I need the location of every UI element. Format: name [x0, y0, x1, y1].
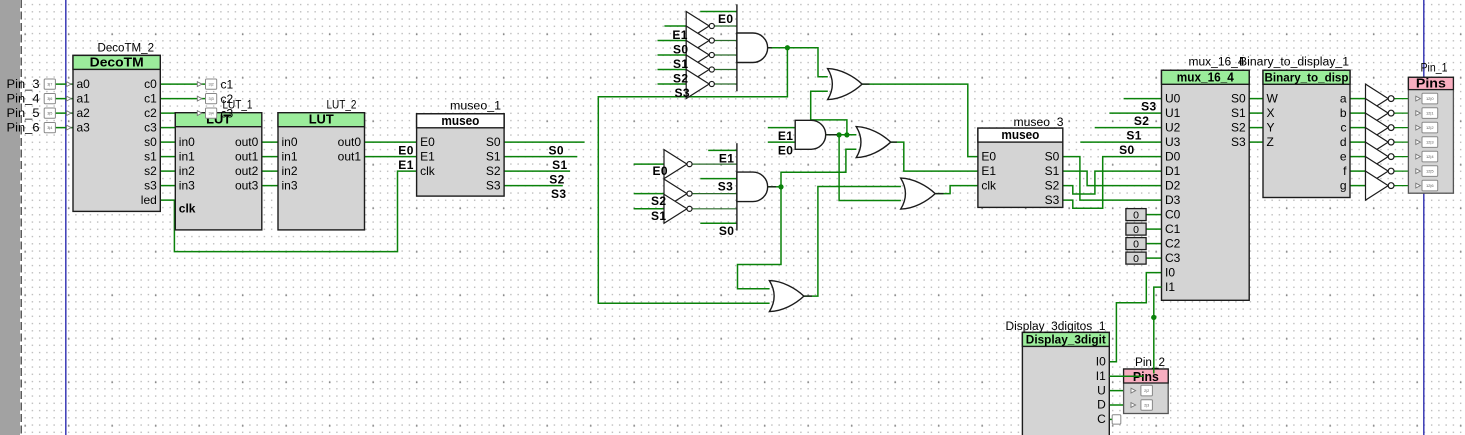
block Binary_to_display_1 — [1239, 57, 1350, 198]
wire inverter N4 output to AND A1 — [712, 69, 737, 71]
wire net S0 to inverter N2 — [658, 40, 687, 42]
wire inverter g output to Pin_1 — [1394, 185, 1416, 187]
wire OR O2 output to museo_3 E1 — [891, 142, 978, 171]
wire net E0 to inverter N6 — [634, 163, 664, 165]
wire mux S0 to Binary_to_display — [1249, 98, 1263, 100]
svg-text:out2: out2 — [235, 164, 259, 178]
svg-text:s1: s1 — [144, 149, 157, 163]
svg-text:12|1: 12|1 — [1426, 111, 1434, 116]
wire Binary_to_display f to inverter — [1350, 170, 1366, 172]
page boundary line right — [1423, 0, 1425, 435]
svg-text:E0: E0 — [718, 12, 733, 26]
svg-text:12|4: 12|4 — [1426, 154, 1434, 159]
net label E0 at AND A2 — [778, 143, 793, 157]
wire constant 0 to mux C1 — [1146, 228, 1161, 230]
wire Display I1 stub — [1109, 375, 1144, 377]
wire OR O3 output to museo_3 clk — [936, 186, 978, 194]
wire inverter N3 output to AND A1 — [712, 54, 737, 56]
svg-text:Pin_5: Pin_5 — [7, 108, 40, 120]
wire museo_1 S1 stub (net S1) — [504, 156, 577, 158]
input pin Pin_4 — [7, 94, 72, 106]
wire Pin_3 to a0 — [55, 83, 73, 85]
net label S2 at mux U1 — [1134, 114, 1149, 128]
wire inverter b output to Pin_1 — [1394, 112, 1416, 114]
block LUT_1 — [175, 100, 261, 230]
svg-text:S3: S3 — [551, 187, 566, 201]
wire A2 branch to OR O1 bottom input — [811, 91, 847, 135]
Pin_1 pin icon 12|0 — [1416, 93, 1438, 104]
wire c1 to connector c2 — [160, 98, 205, 100]
net label E0 at museo_1 — [398, 143, 413, 157]
wire Pin_6 to a3 — [55, 127, 73, 129]
wire mux I1 to Pin_2 — [1154, 287, 1162, 373]
inverter for segment c — [1366, 113, 1395, 142]
svg-text:in1: in1 — [179, 149, 195, 163]
junction dot A2-a — [837, 132, 842, 137]
svg-text:a0: a0 — [77, 77, 91, 91]
wire Binary_to_display g to inverter — [1350, 185, 1366, 187]
junction dot A2-b — [844, 132, 849, 137]
svg-text:s2: s2 — [144, 164, 157, 178]
svg-text:S3: S3 — [1231, 135, 1246, 149]
svg-text:E1: E1 — [778, 129, 793, 143]
wire Pin_5 to a2 — [55, 112, 73, 114]
block mux_16_4 — [1162, 57, 1250, 301]
svg-text:12|5: 12|5 — [1426, 169, 1434, 174]
svg-text:DecoTM: DecoTM — [90, 54, 144, 69]
pin stub AND A3 output — [768, 186, 776, 188]
svg-text:out0: out0 — [338, 135, 362, 149]
net label S1 at museo_1 output — [552, 158, 567, 172]
svg-text:3|4: 3|4 — [47, 126, 52, 130]
wire net S3 to inverter N5 — [658, 83, 687, 85]
net label S3 at museo_1 output — [551, 187, 566, 201]
svg-text:S3: S3 — [486, 178, 501, 192]
svg-text:S3: S3 — [1141, 99, 1156, 113]
inverter for segment g — [1366, 171, 1395, 200]
svg-text:Y: Y — [1267, 120, 1275, 134]
svg-text:I1: I1 — [1096, 369, 1106, 383]
wire LUT_1 out0 to LUT_2 in0 — [262, 141, 278, 143]
svg-text:C2: C2 — [1165, 236, 1181, 250]
svg-text:S0: S0 — [549, 144, 564, 158]
svg-text:in0: in0 — [282, 135, 298, 149]
inverter N4 — [686, 55, 714, 84]
svg-text:d: d — [1340, 135, 1347, 149]
wire s3 to LUT_1 in3 — [160, 185, 175, 187]
svg-text:Pin_2: Pin_2 — [1135, 357, 1165, 369]
svg-text:out3: out3 — [235, 178, 259, 192]
input pin Pin_5 — [7, 108, 72, 120]
block DecoTM_2 — [73, 43, 160, 212]
wire mux S2 to Binary_to_display — [1249, 127, 1263, 129]
svg-text:U0: U0 — [1165, 91, 1181, 105]
wire LUT_2 out1 to museo_1 E1 (net E1) — [365, 156, 417, 158]
svg-text:Binary_to_disp: Binary_to_disp — [1265, 70, 1349, 84]
svg-text:E1: E1 — [719, 151, 734, 165]
Pin_2 pin icon 2|3 — [1131, 400, 1152, 411]
Pin_1 pin icon 12|2 — [1416, 122, 1438, 133]
svg-text:U2: U2 — [1165, 120, 1181, 134]
pin stub OR O4 output — [804, 295, 812, 297]
wire museo_3 S1 to mux D2 — [1063, 171, 1162, 186]
svg-text:c1: c1 — [221, 77, 234, 91]
svg-text:in3: in3 — [282, 178, 298, 192]
wire c0 to connector c1 — [160, 83, 205, 85]
net label S3 at AND A3 — [718, 179, 733, 193]
wire LUT_1 out3 to LUT_2 in3 — [262, 185, 278, 187]
pin stub OR O1 output — [862, 83, 870, 85]
wire A2 branch to OR O3 bottom input — [839, 135, 901, 201]
or-gate O4 — [769, 281, 804, 312]
svg-text:a1: a1 — [77, 91, 91, 105]
wire net S1 to inverter N3 — [658, 54, 687, 56]
svg-text:S2: S2 — [549, 173, 564, 187]
svg-text:museo: museo — [441, 113, 479, 128]
inverter for segment e — [1366, 142, 1395, 171]
constant 0 for C1 — [1126, 223, 1146, 236]
wire c2 to connector c3 — [160, 112, 205, 114]
wire net S1 to inverter N8 — [634, 208, 664, 210]
svg-text:D2: D2 — [1165, 178, 1181, 192]
left gray sidebar — [0, 0, 21, 435]
svg-text:S0: S0 — [719, 224, 734, 238]
svg-text:in1: in1 — [282, 149, 298, 163]
svg-text:S1: S1 — [1231, 106, 1246, 120]
svg-text:LUT: LUT — [309, 112, 334, 127]
wire inverter N2 output to AND A1 — [712, 40, 737, 42]
wire s1 to LUT_1 in1 — [160, 156, 175, 158]
svg-text:Binary_to_display_1: Binary_to_display_1 — [1239, 57, 1349, 69]
wire LUT_1 out2 to LUT_2 in2 — [262, 170, 278, 172]
svg-text:S3: S3 — [675, 86, 690, 100]
or-gate O1 — [828, 69, 863, 100]
svg-text:museo_3: museo_3 — [1014, 117, 1064, 129]
svg-text:3|2: 3|2 — [208, 83, 213, 87]
wire Binary_to_display a to inverter — [1350, 98, 1366, 100]
wire net E1 to inverter N1 — [664, 25, 686, 27]
svg-text:c2: c2 — [221, 92, 234, 106]
svg-text:S2: S2 — [1045, 178, 1060, 192]
Pin_1 pin icon 12|6 — [1416, 180, 1438, 191]
svg-text:C3: C3 — [1165, 251, 1181, 265]
and-gate A2 — [795, 120, 826, 149]
wire net E0 to AND A1 top input — [700, 11, 737, 13]
junction dot at A1 output — [785, 45, 790, 50]
junction dot at A3 output — [778, 184, 783, 189]
svg-text:C0: C0 — [1165, 207, 1181, 221]
wire constant 0 to mux C2 — [1146, 243, 1161, 245]
constant 0 for C0 — [1126, 209, 1146, 222]
svg-text:g: g — [1340, 178, 1347, 192]
inverter for segment b — [1366, 99, 1395, 128]
svg-text:2|3: 2|3 — [1144, 404, 1149, 408]
net label S0 at mux U3 — [1119, 143, 1134, 157]
svg-text:I0: I0 — [1165, 265, 1175, 279]
wire A3 output to OR O4 top input — [738, 187, 782, 289]
svg-text:0: 0 — [1133, 253, 1139, 265]
net label S2 at museo_1 output — [549, 173, 564, 187]
svg-text:c: c — [1341, 120, 1347, 134]
svg-text:E1: E1 — [981, 164, 996, 178]
svg-text:b: b — [1340, 106, 1347, 120]
svg-text:Pin_1: Pin_1 — [1421, 63, 1448, 75]
wire inverter d output to Pin_1 — [1394, 141, 1416, 143]
Pin_2 pin icon 2|2 — [1131, 385, 1152, 396]
wire inverter f output to Pin_1 — [1394, 170, 1416, 172]
svg-text:Pin_3: Pin_3 — [7, 79, 40, 91]
connector c1 — [197, 77, 233, 91]
svg-text:s0: s0 — [144, 135, 157, 149]
svg-text:S1: S1 — [552, 158, 567, 172]
svg-text:e: e — [1340, 149, 1347, 163]
svg-text:E0: E0 — [981, 149, 996, 163]
svg-text:c1: c1 — [144, 91, 157, 105]
svg-text:S1: S1 — [486, 149, 501, 163]
net label S3 at mux U0 — [1141, 99, 1156, 113]
block Pin_2 (Pins) — [1124, 357, 1169, 414]
wire inverter N6 output to AND A3 — [690, 163, 737, 165]
svg-text:2|2: 2|2 — [1144, 389, 1149, 393]
net label S1 at inverter N-stack — [673, 57, 688, 71]
svg-text:E1: E1 — [420, 149, 435, 163]
svg-text:Pin_6: Pin_6 — [7, 123, 40, 135]
svg-text:D1: D1 — [1165, 164, 1181, 178]
svg-text:clk: clk — [179, 202, 196, 216]
net label S0 at museo_1 output — [549, 144, 564, 158]
wire A3 output to OR O2 bottom input — [781, 149, 856, 187]
svg-text:clk: clk — [981, 178, 997, 192]
svg-text:12|3: 12|3 — [1426, 140, 1434, 145]
svg-text:S2: S2 — [1134, 114, 1149, 128]
wire inverter N1 output to AND A1 — [712, 25, 737, 27]
connector c3 — [197, 106, 233, 120]
inverter N8 — [664, 194, 692, 223]
and-gate A3 input line — [736, 143, 738, 230]
unconnected box at Display C — [1112, 415, 1121, 424]
inverter N5 — [686, 70, 714, 99]
svg-text:U: U — [1097, 383, 1106, 397]
wire inverter a output to Pin_1 — [1394, 98, 1416, 100]
svg-text:I0: I0 — [1096, 355, 1106, 369]
wire LUT_1 out1 to LUT_2 in1 — [262, 156, 278, 158]
net label S2 at inverter N-stack — [673, 71, 688, 85]
wire inverter c output to Pin_1 — [1394, 127, 1416, 129]
connector c2 — [197, 92, 233, 106]
wire A1 output branch to OR O4 bottom input — [598, 48, 787, 303]
svg-text:s3: s3 — [144, 178, 157, 192]
svg-text:in0: in0 — [179, 135, 195, 149]
pin stub OR O2 output — [891, 141, 897, 143]
wire museo_3 S3 to mux D0 — [1063, 157, 1162, 209]
svg-text:S0: S0 — [1045, 149, 1060, 163]
wire museo_1 S2 stub (net S2) — [504, 170, 570, 172]
wire museo_3 S2 to mux D1 — [1063, 171, 1162, 194]
svg-text:E1: E1 — [398, 158, 413, 172]
svg-text:S0: S0 — [486, 135, 501, 149]
net label E0 at inverter N6 — [653, 164, 668, 178]
svg-text:U1: U1 — [1165, 106, 1181, 120]
wire net stub to mux U1 — [1109, 112, 1161, 114]
wire net stub to mux U0 — [1124, 98, 1162, 100]
Pin_1 pin icon 12|4 — [1416, 151, 1438, 162]
svg-text:museo_1: museo_1 — [450, 101, 501, 113]
svg-text:E1: E1 — [672, 28, 687, 42]
net label S2 at inverter N7 — [651, 194, 666, 208]
wire mux S3 to Binary_to_display — [1249, 141, 1263, 143]
svg-text:D3: D3 — [1165, 193, 1181, 207]
and-gate A3 — [737, 172, 768, 202]
wire Display D to Pin_2 — [1109, 404, 1131, 406]
input pin Pin_6 — [7, 123, 72, 135]
svg-text:12|0: 12|0 — [1426, 96, 1434, 101]
net label E1 at AND A3 — [719, 151, 734, 165]
svg-text:S2: S2 — [651, 194, 666, 208]
svg-text:S1: S1 — [673, 57, 688, 71]
net label E0 (top) — [718, 12, 733, 26]
svg-text:E0: E0 — [653, 164, 668, 178]
svg-text:I1: I1 — [1165, 280, 1175, 294]
net label S3 at inverter N-stack — [675, 86, 690, 100]
net label E1 at AND A2 — [778, 129, 793, 143]
wire inverter N5 output to AND A1 — [712, 83, 737, 85]
svg-text:S2: S2 — [1231, 120, 1246, 134]
or-gate O3 — [901, 178, 936, 209]
svg-text:3|4: 3|4 — [208, 112, 213, 116]
net label S0 at inverter N-stack — [673, 42, 688, 56]
Pin_1 pin icon 12|5 — [1416, 166, 1438, 177]
wire AND A3 output — [768, 186, 781, 188]
wire net S2 to inverter N4 — [658, 69, 687, 71]
wire inverter N7 output to AND A3 — [690, 193, 737, 195]
input pin Pin_3 — [7, 79, 72, 91]
svg-text:a3: a3 — [77, 120, 91, 134]
inverter for segment f — [1366, 157, 1395, 186]
inverter N1 — [686, 12, 714, 41]
net label S1 at inverter N8 — [651, 209, 666, 223]
inverter N2 — [686, 26, 714, 55]
net label E1 at museo_1 — [398, 158, 413, 172]
block museo_3 — [978, 117, 1064, 207]
svg-text:a2: a2 — [77, 106, 91, 120]
wire net stub to mux U2 — [1095, 127, 1162, 129]
svg-text:S1: S1 — [651, 209, 666, 223]
or-gate O2 — [856, 127, 891, 158]
wire s2 to LUT_1 in2 — [160, 170, 175, 172]
wire constant 0 to mux C0 — [1146, 214, 1161, 216]
wire Binary_to_display e to inverter — [1350, 156, 1366, 158]
svg-text:in2: in2 — [179, 164, 195, 178]
wire constant 0 to mux C3 — [1146, 257, 1161, 259]
svg-text:led: led — [141, 193, 157, 207]
inverter for segment d — [1366, 128, 1395, 157]
wire Pin_4 to a1 — [55, 98, 73, 100]
svg-text:Pin_4: Pin_4 — [7, 94, 41, 106]
wire mux S1 to Binary_to_display — [1249, 112, 1263, 114]
constant 0 for C3 — [1126, 252, 1146, 265]
net label S1 at mux U2 — [1126, 128, 1141, 142]
svg-text:W: W — [1267, 91, 1279, 105]
svg-text:Display_3digitos_1: Display_3digitos_1 — [1006, 321, 1106, 333]
and-gate A1 input line — [736, 4, 738, 91]
pin stub OR O3 output — [936, 193, 944, 195]
svg-text:E0: E0 — [398, 143, 413, 157]
svg-text:in2: in2 — [282, 164, 298, 178]
wire A1 output to OR O1 top input — [787, 48, 827, 77]
wire net S2 to inverter N7 — [634, 193, 664, 195]
wire inverter e output to Pin_1 — [1394, 156, 1416, 158]
wire AND A1 output — [768, 47, 788, 49]
svg-text:D0: D0 — [1165, 149, 1181, 163]
svg-text:Display_3digit: Display_3digit — [1026, 332, 1106, 346]
svg-text:C: C — [1097, 412, 1106, 426]
svg-text:c3: c3 — [221, 106, 234, 120]
block LUT_2 — [278, 100, 365, 230]
svg-text:S0: S0 — [1231, 91, 1246, 105]
svg-text:X: X — [1267, 106, 1275, 120]
svg-text:S0: S0 — [1119, 143, 1134, 157]
block Display_3digitos_1 — [1006, 321, 1110, 435]
svg-text:S1: S1 — [1045, 164, 1060, 178]
svg-text:Pins: Pins — [1416, 77, 1446, 91]
block Pin_1 (Pins) — [1408, 63, 1453, 194]
Pin_1 pin icon 12|3 — [1416, 137, 1438, 148]
wire AND A2 output to OR O2 top input — [826, 134, 857, 136]
wire Display U to Pin_2 — [1109, 390, 1131, 392]
svg-text:S3: S3 — [1045, 193, 1060, 207]
svg-text:12|6: 12|6 — [1426, 183, 1434, 188]
wire net E1 to AND A3 — [708, 149, 737, 151]
svg-text:0: 0 — [1133, 209, 1139, 221]
svg-text:out0: out0 — [235, 135, 259, 149]
svg-text:out1: out1 — [235, 149, 259, 163]
svg-text:c2: c2 — [144, 106, 157, 120]
pin stub AND A1 output — [768, 47, 772, 49]
junction dot on I1 wire — [1151, 315, 1156, 320]
svg-text:3|6: 3|6 — [47, 97, 52, 101]
svg-text:3|7: 3|7 — [47, 83, 52, 87]
svg-text:c0: c0 — [144, 77, 157, 91]
svg-text:LUT_2: LUT_2 — [327, 100, 357, 112]
block museo_1 — [417, 101, 505, 197]
wire OR O1 output to museo_3 E0 — [862, 84, 978, 157]
svg-text:12|2: 12|2 — [1426, 125, 1434, 130]
svg-text:mux_16_4: mux_16_4 — [1177, 69, 1235, 84]
svg-text:E0: E0 — [420, 135, 435, 149]
svg-text:3|5: 3|5 — [47, 112, 52, 116]
wire museo_1 S3 stub (net S3) — [504, 185, 563, 187]
net label E1 at inverter N-stack — [672, 28, 687, 42]
svg-text:D: D — [1097, 398, 1106, 412]
wire net stub to mux U3 — [1080, 141, 1161, 143]
svg-text:3|3: 3|3 — [208, 97, 213, 101]
wire net E0 to AND A2 — [768, 141, 795, 143]
inverter N3 — [686, 41, 714, 70]
wire museo_1 S0 stub (net S0) — [504, 141, 584, 143]
wire LUT_2 out0 to museo_1 E0 (net E0) — [365, 141, 417, 143]
wire net S0 to AND A3 — [700, 222, 737, 224]
svg-text:S1: S1 — [1126, 128, 1141, 142]
svg-text:clk: clk — [420, 164, 436, 178]
svg-text:S2: S2 — [673, 71, 688, 85]
wire Display I0 to mux I0 — [1109, 273, 1161, 362]
svg-text:DecoTM_2: DecoTM_2 — [98, 43, 155, 55]
wire net S3 to AND A3 — [700, 178, 737, 180]
svg-text:C1: C1 — [1165, 222, 1181, 236]
svg-text:out1: out1 — [338, 149, 362, 163]
wire Binary_to_display d to inverter — [1350, 141, 1366, 143]
page boundary line left — [65, 0, 67, 435]
